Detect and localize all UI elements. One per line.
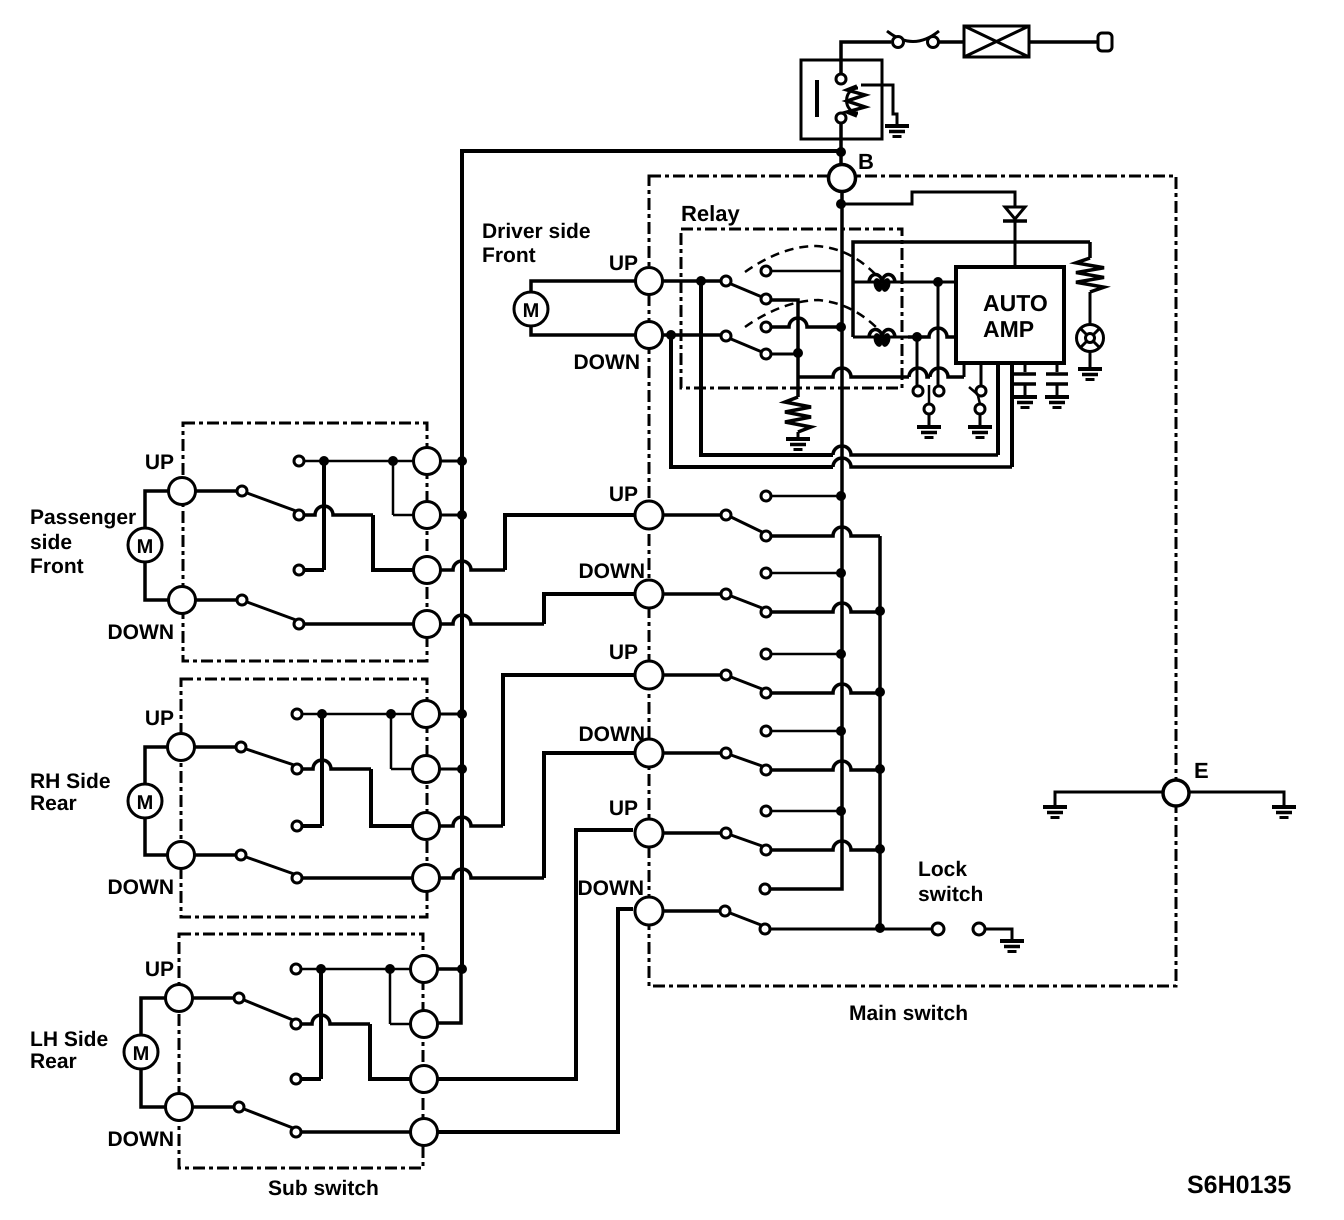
sub switch box LH Side Rear [179, 934, 423, 1168]
svg-text:DOWN: DOWN [108, 876, 175, 899]
main switch bottom contact 4 [761, 765, 771, 775]
wire passenger c1 to bus [440, 460, 462, 463]
wire RH c3 to main UP [439, 817, 503, 826]
wire frame to resistor [1088, 242, 1092, 258]
wire switch to fusible link [939, 40, 964, 44]
junction dot coil2 [912, 332, 922, 342]
main switch boundary box [649, 176, 1176, 986]
wire RH c4 to main DOWN [439, 869, 544, 878]
main switch bottom contact 6 [760, 924, 770, 934]
svg-text:DOWN: DOWN [574, 351, 641, 374]
pin circle 3 passenger [414, 557, 441, 584]
contact pair terminal b [934, 386, 944, 396]
node B [829, 165, 856, 192]
relay coil 2 wire [853, 336, 908, 339]
main switch top contact 3 [761, 649, 771, 659]
switch throw DOWN passenger [237, 595, 247, 605]
main switch bottom contact 5 [761, 845, 771, 855]
contact 2 LH rear [291, 1019, 301, 1029]
row1 wire RH rear [302, 713, 413, 716]
circle2 link wire RH rear [390, 714, 393, 769]
diode D1 [1005, 207, 1025, 219]
row4 wire RH rear [302, 876, 413, 880]
wire breaker top to switch [841, 42, 891, 74]
wire E right ground [1189, 792, 1284, 806]
main switch bottom contact 3 [761, 688, 771, 698]
motor M passenger [128, 528, 162, 562]
contact 1 RH rear [292, 709, 302, 719]
wire UP branch to AUTO AMP pin [701, 281, 833, 455]
wire relay contact1 upper to bus [771, 270, 841, 273]
main switch bottom contact 1 [761, 531, 771, 541]
main switch throw 5 [721, 828, 731, 838]
contact lever 1 [928, 385, 931, 404]
wire RH c1 to bus [439, 713, 462, 716]
wire B to diode [841, 192, 1015, 206]
junction dot coil1 [933, 277, 943, 287]
svg-text:Relay: Relay [681, 201, 740, 226]
connector DOWN passenger [169, 587, 196, 614]
circuit breaker terminal bottom [836, 113, 846, 123]
switch blade arc [887, 31, 939, 42]
capacitor C1 [1024, 363, 1027, 372]
main switch throw 2 [721, 589, 731, 599]
main switch connector 4 [635, 739, 663, 767]
svg-text:M: M [133, 1043, 150, 1065]
switch throw DOWN LH rear [234, 1102, 244, 1112]
pin circle 1 LH rear [411, 956, 438, 983]
row4 wire passenger [304, 622, 414, 626]
svg-text:E: E [1194, 758, 1209, 783]
svg-text:UP: UP [609, 797, 638, 820]
main switch connector 5 [635, 819, 663, 847]
pin circle 1 passenger [414, 448, 441, 475]
junction dot row1a passenger [319, 456, 329, 466]
contact 3 RH rear [292, 821, 302, 831]
switch throw DOWN RH rear [236, 850, 246, 860]
switch throw UP passenger [237, 486, 247, 496]
svg-text:Rear: Rear [30, 1050, 77, 1073]
contact lever 2 [969, 387, 976, 393]
wire lock switch to ground [985, 929, 1012, 940]
main switch top contact 2 [761, 568, 771, 578]
main switch arm 5 [731, 835, 762, 846]
svg-text:switch: switch [918, 883, 983, 906]
pin circle 2 LH rear [411, 1011, 438, 1038]
svg-text:AUTO: AUTO [983, 290, 1048, 316]
wire DOWN driver to relay [663, 333, 721, 337]
pin circle 4 passenger [414, 611, 441, 638]
connector UP RH rear [168, 734, 195, 761]
contact2 jog wire LH rear [301, 1015, 370, 1024]
pin circle 1 RH rear [413, 701, 440, 728]
junction dot UP branch [696, 276, 706, 286]
wire coil1 dot down [937, 282, 940, 386]
pin circle 4 LH rear [411, 1119, 438, 1146]
relay switch 1 arm [731, 284, 762, 297]
ground at contact 2 [968, 427, 992, 438]
main switch connector 2 [635, 580, 663, 608]
wire LH c4 to main DOWN [436, 909, 633, 1132]
wire passenger c2 to bus [440, 514, 462, 517]
switch arm DOWN RH rear [246, 857, 294, 874]
circuit breaker heater coil [847, 86, 865, 116]
wire driver motor loop [531, 281, 636, 293]
junction dot row1b passenger [388, 456, 398, 466]
svg-text:UP: UP [609, 252, 638, 275]
contact 2 passenger [294, 510, 304, 520]
connector UP LH rear [166, 985, 193, 1012]
contact 2 RH rear [292, 764, 302, 774]
main switch throw 4 [721, 748, 731, 758]
svg-text:DOWN: DOWN [108, 1128, 175, 1151]
svg-text:UP: UP [145, 707, 174, 730]
svg-text:M: M [523, 300, 540, 322]
svg-text:Sub switch: Sub switch [268, 1177, 379, 1200]
switch arm UP RH rear [246, 749, 294, 765]
mechanical link dashes 2 [745, 300, 878, 329]
main switch connector 1 [635, 501, 663, 529]
ground at C1 [1013, 397, 1037, 408]
wire motor loop LH rear [141, 998, 166, 1035]
main switch throw 6 [720, 906, 730, 916]
connector DOWN LH rear [166, 1094, 193, 1121]
main bus from B down [771, 192, 842, 889]
circuit breaker bimetal bar [815, 80, 819, 117]
main switch arm 4 [731, 755, 762, 766]
svg-text:DOWN: DOWN [578, 877, 645, 900]
junction dot relay [793, 348, 803, 358]
relay contact 2 upper [761, 322, 771, 332]
svg-text:Main switch: Main switch [849, 1002, 968, 1025]
switch arm UP LH rear [244, 1000, 293, 1020]
pin circle 4 RH rear [413, 865, 440, 892]
svg-text:side: side [30, 531, 72, 554]
lock bus vertical [878, 536, 882, 929]
svg-text:UP: UP [145, 958, 174, 981]
wire RH c2 to bus [439, 768, 462, 771]
ground at C2 [1045, 397, 1069, 408]
svg-text:Passenger: Passenger [30, 506, 136, 529]
inner vertical wire passenger [322, 461, 326, 570]
wire resistor to lamp [1089, 292, 1092, 325]
main switch arm 6 [730, 913, 761, 925]
resistor R right [1076, 258, 1104, 292]
connector DOWN driver [636, 322, 663, 349]
main switch throw 3 [721, 670, 731, 680]
relay contact 1 lower [761, 294, 771, 304]
main switch connector 3 [635, 661, 663, 689]
wire relay contact2 upper to bus [771, 318, 842, 327]
relay switch 2 arm [731, 339, 762, 352]
contact lower 2 [975, 404, 985, 414]
ground at contact 1 [917, 427, 941, 438]
ground at lamp [1078, 369, 1102, 380]
relay coil frame [853, 242, 1090, 337]
ground at circuit breaker [885, 126, 909, 137]
switch arm DOWN LH rear [244, 1109, 293, 1128]
svg-text:Front: Front [482, 244, 536, 267]
contact 3 LH rear [291, 1074, 301, 1084]
mechanical link dashes 1 [745, 246, 878, 277]
junction dot lock bus [875, 923, 885, 933]
main switch arm 3 [731, 677, 762, 689]
node E [1163, 780, 1189, 806]
svg-text:DOWN: DOWN [108, 621, 175, 644]
trunk wire top horizontal [462, 151, 841, 969]
wire motor loop RH rear [145, 747, 168, 784]
battery terminal lug [1098, 33, 1112, 51]
junction dot above B [836, 147, 846, 157]
switch arm DOWN passenger [247, 602, 296, 620]
wire passenger c4 to main DOWN [440, 615, 544, 624]
contact 3 passenger [294, 565, 304, 575]
contact pair terminal a [913, 386, 923, 396]
row4 wire LH rear [301, 1130, 411, 1134]
main switch connector 6 [635, 897, 663, 925]
inner vertical wire RH rear [320, 714, 324, 826]
ground at lock switch [1000, 941, 1024, 952]
wire contact1 to ground [928, 414, 931, 426]
main switch arm 1 [731, 517, 762, 532]
main switch top contact 1 [761, 491, 771, 501]
pin circle 2 RH rear [413, 756, 440, 783]
svg-text:DOWN: DOWN [579, 560, 646, 583]
switch throw UP LH rear [234, 993, 244, 1003]
contact upper 2 [976, 386, 986, 396]
AUTO AMP box [956, 267, 1064, 363]
contact 4 LH rear [291, 1127, 301, 1137]
row1 wire passenger [304, 460, 414, 463]
row1 wire LH rear [301, 968, 411, 971]
svg-text:UP: UP [609, 641, 638, 664]
svg-text:Rear: Rear [30, 792, 77, 815]
svg-text:LH Side: LH Side [30, 1028, 108, 1051]
switch throw UP RH rear [236, 742, 246, 752]
contact 4 RH rear [292, 873, 302, 883]
wire AMP pin to contact 2 [980, 363, 983, 386]
junction dot relay to main bus [836, 322, 846, 332]
wire relay contact2 lower [771, 353, 794, 356]
wire UP driver to relay [663, 279, 721, 283]
contact 1 passenger [294, 456, 304, 466]
junction dot row1a LH rear [316, 964, 326, 974]
svg-text:UP: UP [609, 483, 638, 506]
main switch top contact 5 [761, 806, 771, 816]
switch contact left [893, 37, 904, 48]
contact 4 passenger [294, 619, 304, 629]
main switch top contact 4 [761, 726, 771, 736]
main switch arm 2 [731, 596, 762, 608]
junction dot B branch [836, 199, 846, 209]
wire coil to ground [861, 85, 897, 124]
wire diode to AUTO AMP [1014, 222, 1017, 267]
relay switch 2 common [721, 331, 731, 341]
junction dot row1b LH rear [385, 964, 395, 974]
svg-text:B: B [858, 149, 874, 174]
motor M LH rear [124, 1035, 158, 1069]
relay boundary box [681, 229, 902, 388]
svg-text:DOWN: DOWN [579, 723, 646, 746]
wire passenger c3 to main UP [440, 561, 505, 570]
connector UP driver [636, 268, 663, 295]
svg-text:RH Side: RH Side [30, 770, 111, 793]
circle2 link wire passenger [392, 461, 395, 515]
fusible link FL [964, 26, 1029, 57]
ground at E right [1272, 807, 1296, 818]
wire fusible link to battery terminal [1029, 40, 1098, 44]
capacitor C2 [1056, 363, 1059, 372]
relay contact 2 lower [761, 349, 771, 359]
svg-text:Driver side: Driver side [482, 220, 591, 243]
pin circle 3 LH rear [411, 1066, 438, 1093]
connector UP passenger [169, 478, 196, 505]
wire coil2 dot down [916, 337, 919, 386]
sub switch box RH Side Rear [181, 679, 427, 917]
relay resistor [785, 397, 811, 432]
wire LH c1 to bus end [437, 967, 462, 971]
contact2 jog wire passenger [304, 506, 373, 515]
contact 1 LH rear [291, 964, 301, 974]
wire LH c3 to main UP [437, 830, 633, 1079]
svg-text:M: M [137, 536, 154, 558]
pin circle 3 RH rear [413, 813, 440, 840]
wire E left ground [1055, 792, 1163, 806]
svg-text:UP: UP [145, 451, 174, 474]
lamp symbol [1077, 325, 1104, 352]
switch arm UP passenger [247, 493, 296, 511]
lock switch contact left [932, 923, 944, 935]
circuit breaker terminal top [836, 74, 846, 84]
wire motor loop passenger [145, 491, 169, 528]
motor M driver [514, 292, 548, 326]
junction dot row1b RH rear [386, 709, 396, 719]
ground at E left [1043, 807, 1067, 818]
pin circle 2 passenger [414, 502, 441, 529]
main switch top contact 6 [760, 884, 770, 894]
relay coil 1 [869, 274, 895, 283]
lock switch contact right [973, 923, 985, 935]
inner vertical wire LH rear [319, 969, 323, 1079]
wire breaker bottom to node B [839, 123, 843, 165]
ground at relay resistor [786, 439, 810, 450]
svg-text:AMP: AMP [983, 316, 1034, 342]
contact2 jog wire RH rear [302, 760, 371, 769]
wire LH c2 right link [437, 969, 461, 1023]
connector DOWN RH rear [168, 842, 195, 869]
wire contact2 to ground [979, 414, 982, 426]
junction dot row1a RH rear [317, 709, 327, 719]
wire DOWN branch to AUTO AMP pin [671, 335, 833, 467]
relay switch 1 common [721, 276, 731, 286]
svg-text:Front: Front [30, 555, 84, 578]
sub switch box Passenger side Front [183, 423, 427, 661]
switch contact right [928, 37, 939, 48]
contact lower 1 [924, 404, 934, 414]
relay coil 1 wire [853, 281, 956, 284]
motor M RH rear [128, 784, 162, 818]
wire relay contact1 lower down [771, 300, 798, 397]
junction dot DOWN branch [666, 330, 676, 340]
svg-text:Lock: Lock [918, 858, 967, 881]
main switch throw 1 [721, 510, 731, 520]
circle2 link wire LH rear [389, 969, 392, 1024]
relay contact 1 upper [761, 266, 771, 276]
wire lamp to ground [1089, 352, 1092, 368]
svg-text:M: M [137, 792, 154, 814]
relay coil 2 [869, 329, 895, 338]
circuit breaker box [801, 60, 882, 139]
svg-text:S6H0135: S6H0135 [1187, 1171, 1291, 1199]
wire relay to AMP pin1 [798, 368, 909, 377]
main switch bottom contact 2 [761, 607, 771, 617]
